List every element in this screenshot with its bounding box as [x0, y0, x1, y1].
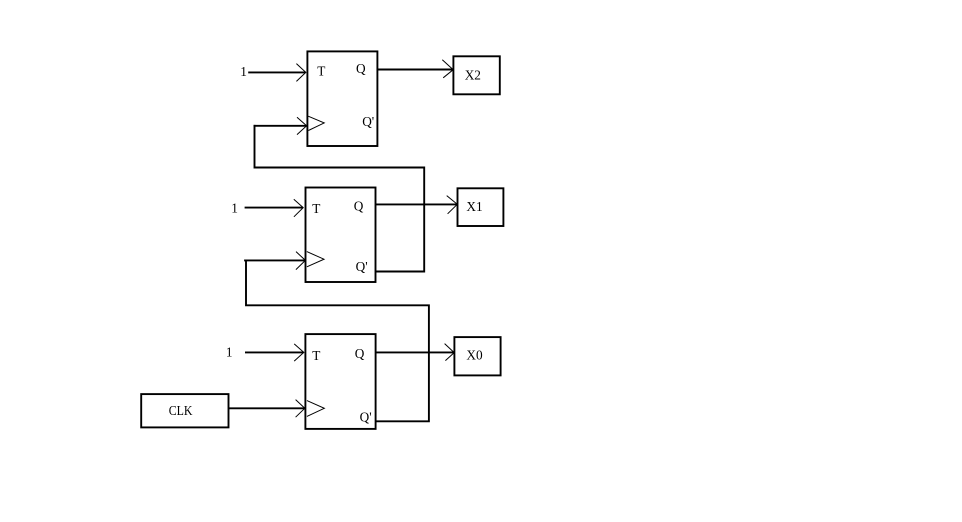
svg-text:X2: X2 [465, 67, 481, 82]
svg-text:T: T [312, 201, 320, 216]
svg-text:Q: Q [356, 61, 366, 76]
svg-text:Q: Q [355, 346, 365, 361]
svg-text:1: 1 [226, 345, 233, 360]
svg-text:CLK: CLK [169, 403, 193, 418]
svg-text:Q': Q' [356, 259, 368, 274]
svg-text:1: 1 [231, 201, 238, 216]
svg-text:X1: X1 [466, 199, 482, 214]
svg-text:1: 1 [240, 64, 247, 79]
svg-text:T: T [317, 64, 325, 79]
svg-text:Q': Q' [362, 114, 374, 129]
svg-text:Q: Q [354, 199, 364, 214]
svg-text:X0: X0 [466, 347, 483, 362]
svg-text:Q': Q' [360, 410, 372, 425]
svg-text:T: T [312, 348, 320, 363]
